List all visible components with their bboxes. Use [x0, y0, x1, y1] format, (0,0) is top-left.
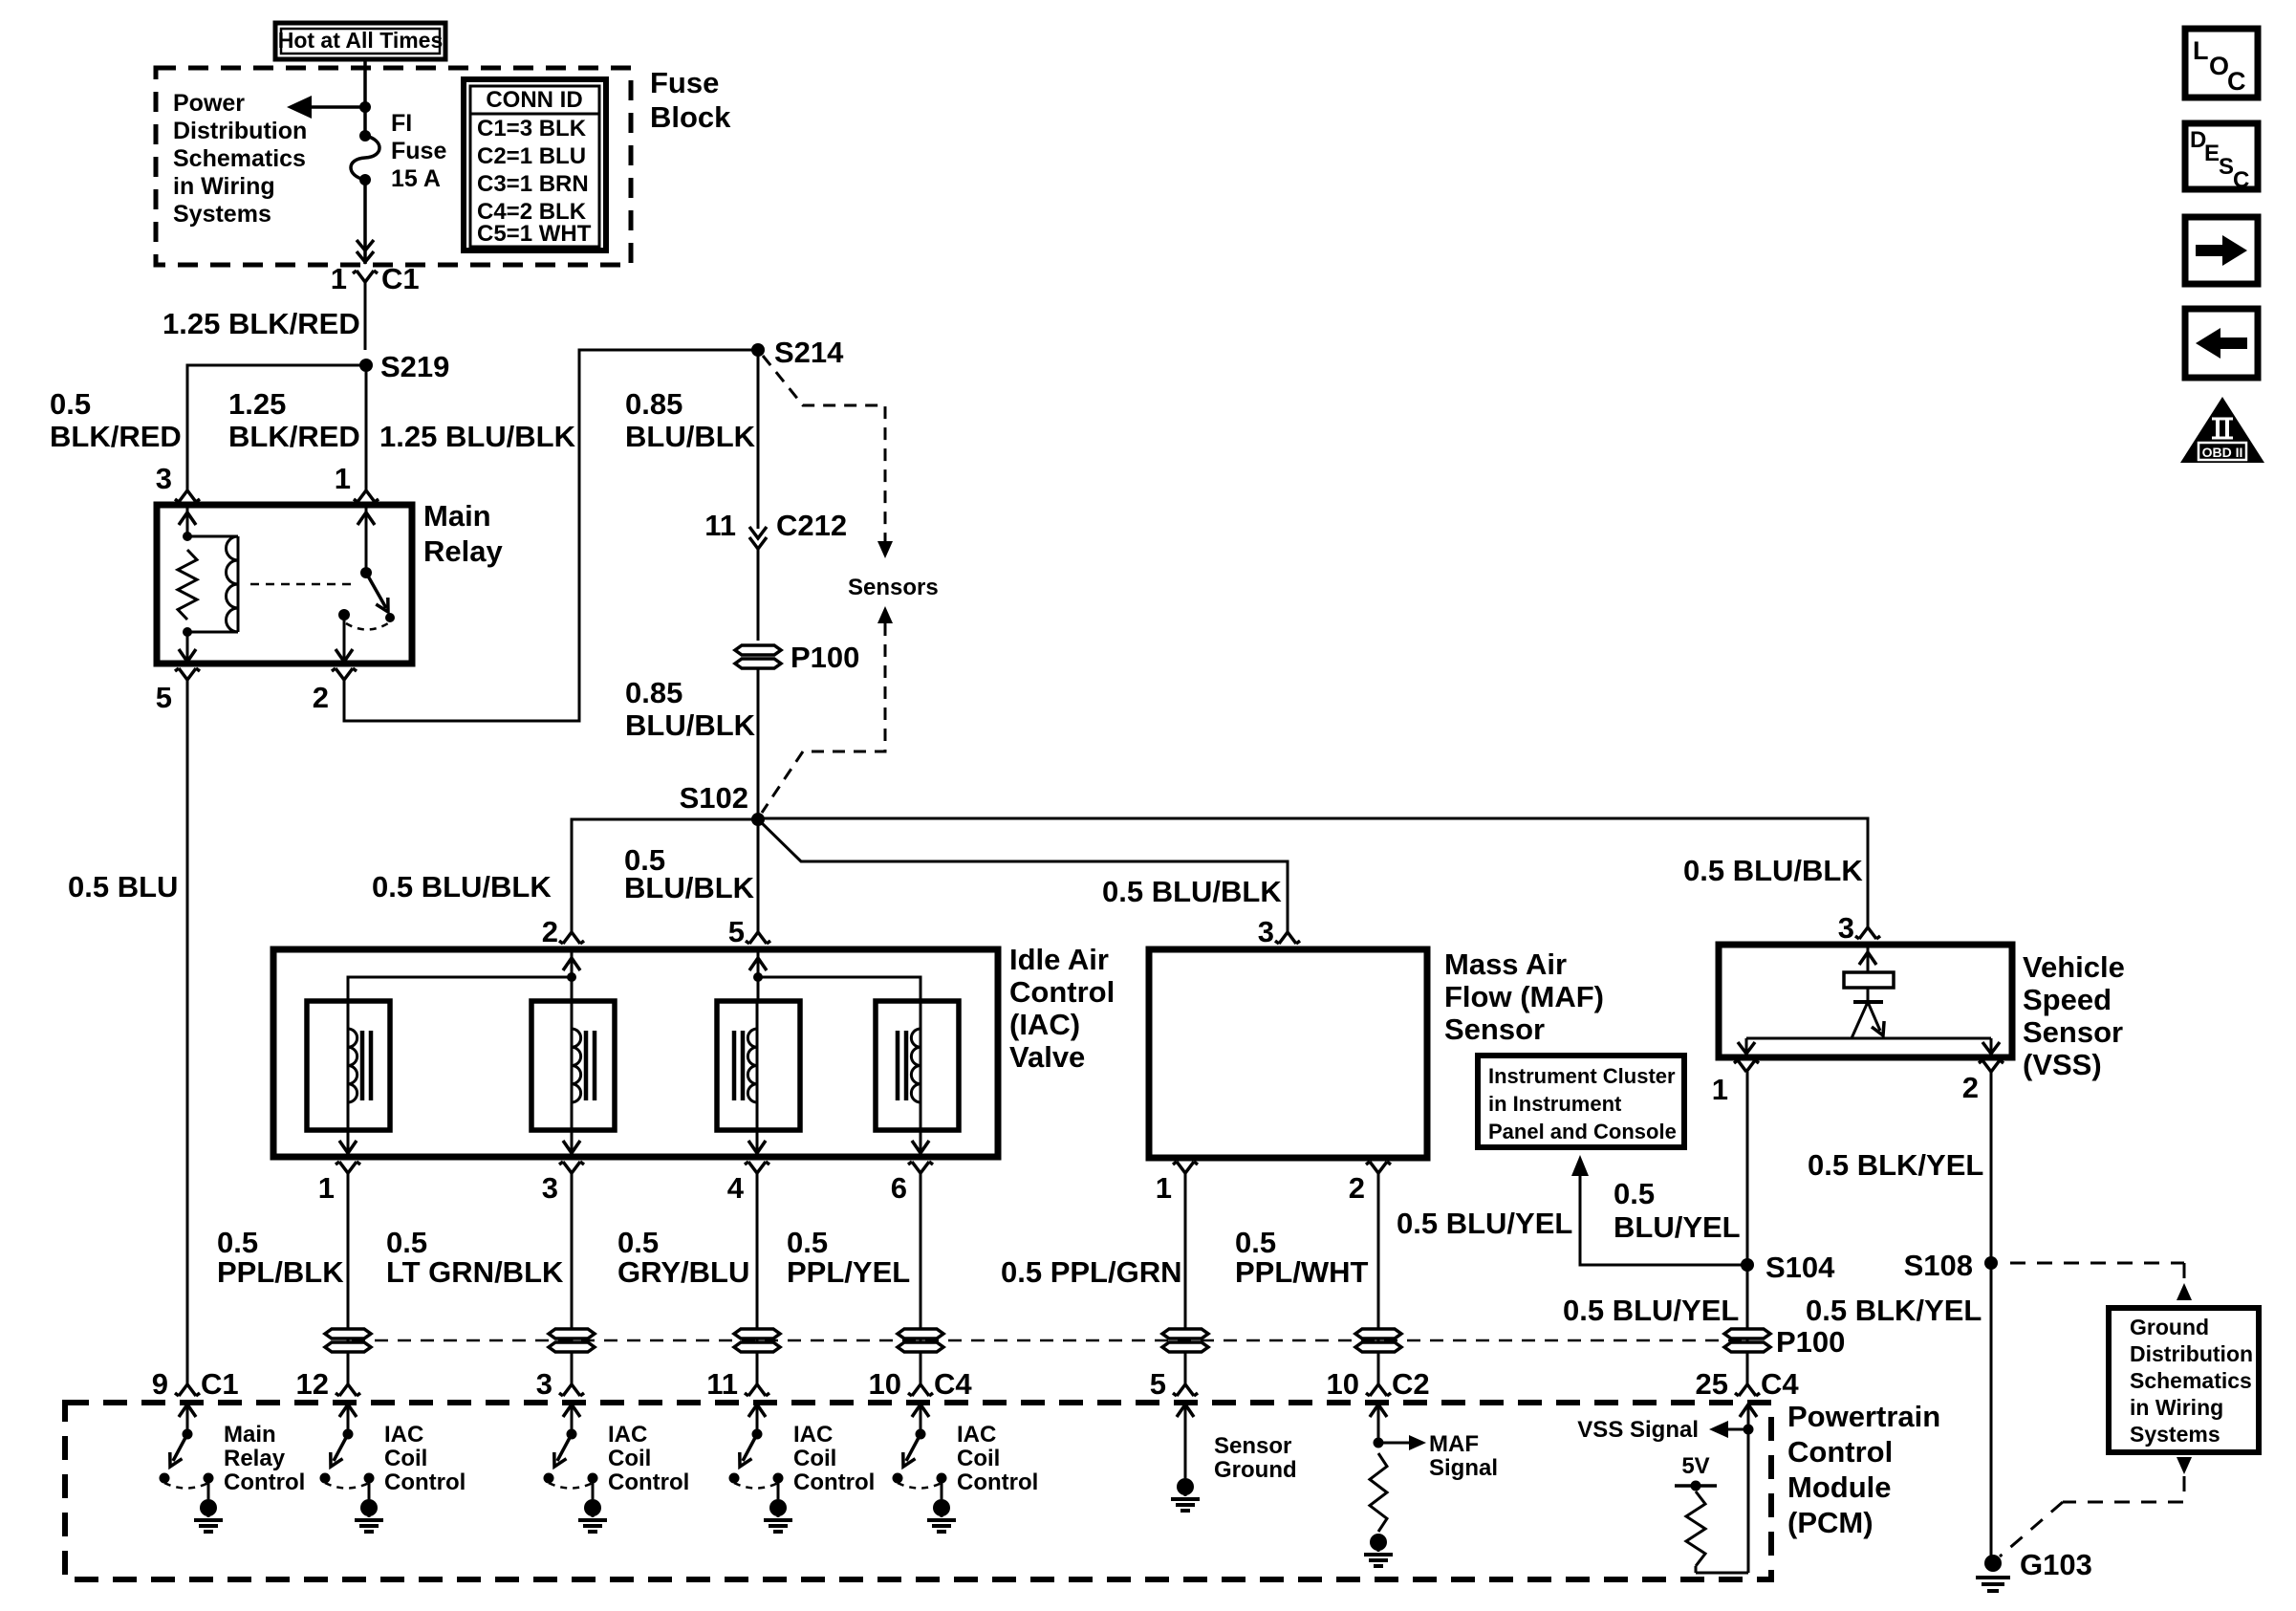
label 0.5 PPL/GRN [1001, 1255, 1182, 1289]
svg-text:Relay: Relay [423, 534, 503, 568]
label Sensors [848, 575, 939, 600]
svg-text:Control: Control [384, 1469, 466, 1495]
svg-text:Hot at All Times: Hot at All Times [278, 28, 444, 53]
svg-text:0.85: 0.85 [625, 676, 682, 709]
label 1 C1 [331, 262, 420, 295]
svg-text:Power: Power [173, 90, 245, 117]
wire IAC pin 6 to PCM [920, 1173, 922, 1384]
svg-text:Main: Main [224, 1422, 276, 1448]
wire IAC pin 4 to PCM [756, 1173, 759, 1384]
svg-text:S214: S214 [774, 336, 844, 369]
svg-text:0.5 BLU/YEL: 0.5 BLU/YEL [1563, 1294, 1739, 1327]
label pin 3 [156, 462, 172, 495]
IAC coil B [572, 1001, 595, 1130]
label pin 1 (MAF) [1156, 1171, 1172, 1205]
connector P100 (engine harness) [735, 645, 781, 668]
IAC pin 5 connector [746, 932, 770, 944]
label 0.85 BLU/BLK (upper) [625, 387, 756, 453]
MAF pin 1 connector [1173, 1162, 1198, 1173]
fuse block exit arrow [357, 240, 374, 262]
note Power Distribution Schematics in Wiring Systems [173, 90, 307, 228]
svg-text:Control: Control [608, 1469, 689, 1495]
label 0.5 BLU/BLK (IAC pin 2) [372, 870, 552, 903]
svg-text:S104: S104 [1765, 1251, 1835, 1284]
label pin 1 (IAC) [318, 1171, 335, 1205]
svg-text:Instrument Cluster: Instrument Cluster [1488, 1064, 1676, 1088]
label 1.25 BLK/RED (2) [228, 387, 360, 453]
svg-text:G103: G103 [2020, 1548, 2092, 1581]
relay pin 2 connector [332, 668, 357, 680]
IAC pin 3 connector [559, 1162, 584, 1173]
legend box right-arrow [2185, 217, 2258, 284]
pin 1 connector C1 below fuse block [353, 271, 378, 350]
svg-text:Control: Control [1787, 1435, 1893, 1469]
wire IAC pin 3 to PCM [571, 1173, 574, 1384]
label P100 (2) [1776, 1325, 1845, 1359]
svg-text:3: 3 [1258, 915, 1274, 948]
svg-text:Sensor: Sensor [1214, 1433, 1291, 1459]
svg-text:BLK/RED: BLK/RED [228, 420, 360, 453]
svg-text:4: 4 [727, 1171, 745, 1205]
svg-text:0.85: 0.85 [625, 387, 682, 421]
svg-text:C: C [2233, 167, 2249, 193]
label Main Relay [423, 499, 503, 568]
connector P100 on IAC pin1 wire [325, 1329, 371, 1352]
svg-text:Signal: Signal [1429, 1455, 1498, 1481]
relay pin 1 connector [354, 490, 379, 502]
label 0.5 BLU/BLK (MAF) [1102, 875, 1282, 908]
splice S102 [751, 813, 765, 826]
label G103 [2020, 1548, 2092, 1581]
relay pin 3 internal lead [179, 505, 196, 536]
svg-text:L: L [2193, 36, 2209, 65]
relay mechanical link dashed [250, 583, 357, 586]
svg-text:Control: Control [1009, 975, 1115, 1009]
svg-text:Sensor: Sensor [2023, 1015, 2123, 1049]
label pin 1 (VSS) [1712, 1073, 1728, 1106]
svg-text:1: 1 [335, 462, 351, 495]
svg-text:OBD II: OBD II [2202, 445, 2243, 460]
svg-text:2: 2 [542, 915, 558, 948]
svg-text:5: 5 [1150, 1367, 1166, 1401]
IAC coil C [734, 1001, 757, 1130]
splice S104 [1741, 1258, 1754, 1272]
label Instrument Cluster in Instrument Panel and Console [1488, 1064, 1677, 1143]
IAC coil A box [307, 1001, 390, 1130]
svg-text:VSS Signal: VSS Signal [1577, 1417, 1699, 1443]
svg-text:in Wiring: in Wiring [173, 173, 275, 200]
svg-text:11: 11 [704, 509, 736, 542]
svg-text:in Wiring: in Wiring [2130, 1395, 2223, 1420]
svg-text:C2: C2 [1392, 1367, 1430, 1401]
svg-text:GRY/BLU: GRY/BLU [617, 1255, 749, 1289]
svg-text:15 A: 15 A [391, 165, 441, 192]
svg-text:25: 25 [1696, 1367, 1728, 1401]
PCM main relay control driver [160, 1404, 306, 1532]
IAC pin 6 connector [908, 1162, 933, 1173]
PCM IAC coil control driver [729, 1404, 876, 1532]
svg-text:1.25: 1.25 [228, 387, 286, 421]
svg-text:0.5 BLU: 0.5 BLU [68, 870, 178, 903]
label Mass Air Flow (MAF) Sensor [1444, 947, 1604, 1046]
label pin 2 [313, 681, 329, 714]
label S102 [680, 781, 748, 815]
label 0.5 BLU [68, 870, 178, 903]
relay switch arm [366, 573, 388, 612]
svg-text:0.5 BLU/BLK: 0.5 BLU/BLK [372, 870, 552, 903]
PCM pin 12 connector [296, 1367, 360, 1401]
svg-text:Vehicle: Vehicle [2023, 950, 2125, 984]
PCM VSS signal input [1577, 1404, 1757, 1573]
svg-text:10: 10 [869, 1367, 901, 1401]
VSS pin 3 connector [1855, 927, 1880, 939]
IAC pin 3 internal lead [563, 1130, 580, 1157]
label pin 3 (MAF) [1258, 915, 1274, 948]
svg-text:Sensors: Sensors [848, 575, 939, 600]
svg-text:0.5: 0.5 [1235, 1226, 1276, 1259]
dashed sensors reference path [762, 356, 893, 813]
label S104 [1765, 1251, 1835, 1284]
svg-text:0.5: 0.5 [617, 1226, 659, 1259]
svg-text:Fuse: Fuse [391, 138, 446, 164]
IAC pin 2 internal lead [563, 949, 580, 1001]
IAC feed to coil D [758, 977, 921, 1001]
label Ground Distribution Schematics in Wiring Systems [2130, 1315, 2253, 1447]
svg-text:IAC: IAC [957, 1422, 996, 1448]
svg-text:0.5: 0.5 [1614, 1177, 1655, 1210]
svg-text:Mass Air: Mass Air [1444, 947, 1567, 981]
label 0.5 PPL/BLK [217, 1226, 344, 1289]
svg-text:0.5: 0.5 [50, 387, 91, 421]
svg-text:BLK/RED: BLK/RED [50, 420, 182, 453]
IAC internal feed junctions [567, 972, 763, 982]
svg-text:LT GRN/BLK: LT GRN/BLK [386, 1255, 564, 1289]
svg-text:0.5 BLU/BLK: 0.5 BLU/BLK [1102, 875, 1282, 908]
label pin 3 (IAC) [542, 1171, 558, 1205]
svg-text:S: S [2219, 154, 2234, 180]
label pin 6 (IAC) [891, 1171, 907, 1205]
svg-text:IAC: IAC [384, 1422, 423, 1448]
svg-text:C2=1 BLU: C2=1 BLU [477, 143, 586, 169]
label 0.5 BLU/BLK (VSS) [1683, 854, 1863, 887]
label 0.5 BLK/YEL (upper) [1808, 1148, 1983, 1182]
svg-text:(PCM): (PCM) [1787, 1506, 1874, 1539]
svg-text:Main: Main [423, 499, 491, 533]
svg-text:C4: C4 [1761, 1367, 1799, 1401]
svg-text:3: 3 [536, 1367, 552, 1401]
svg-text:FI: FI [391, 110, 412, 137]
svg-text:Idle Air: Idle Air [1009, 943, 1109, 976]
ground G103 [1976, 1555, 2010, 1591]
relay switch travel arc [346, 623, 388, 630]
svg-text:PPL/BLK: PPL/BLK [217, 1255, 344, 1289]
connector P100 on IAC pin4 wire [734, 1329, 780, 1352]
svg-text:Speed: Speed [2023, 983, 2112, 1016]
svg-text:PPL/WHT: PPL/WHT [1235, 1255, 1369, 1289]
wire IAC pin 1 to PCM [347, 1173, 350, 1384]
svg-text:IAC: IAC [793, 1422, 833, 1448]
wire relay pin 2 to S214 [344, 350, 758, 721]
splice S214 [751, 343, 765, 357]
connector P100 on IAC pin6 wire [898, 1329, 943, 1352]
label 1.25 BLK/RED [162, 307, 360, 340]
svg-text:C1: C1 [381, 262, 420, 295]
svg-text:Ground: Ground [1214, 1457, 1297, 1483]
VSS pin 2 connector [1979, 1060, 2004, 1072]
connector C212 pin 11 arrow [749, 527, 767, 549]
PCM pin 10 C2 connector [1327, 1367, 1430, 1401]
svg-text:1.25 BLU/BLK: 1.25 BLU/BLK [379, 420, 576, 453]
svg-text:10: 10 [1327, 1367, 1359, 1401]
svg-text:0.5 BLK/YEL: 0.5 BLK/YEL [1808, 1148, 1983, 1182]
relay resistor [178, 550, 197, 620]
label S219 [380, 350, 449, 383]
main relay box [157, 505, 412, 664]
svg-text:Coil: Coil [957, 1446, 1000, 1471]
label pin 2 (IAC) [542, 915, 558, 948]
MAF pin 3 connector [1275, 932, 1300, 944]
svg-text:Sensor: Sensor [1444, 1012, 1545, 1046]
svg-text:Powertrain: Powertrain [1787, 1400, 1940, 1433]
IAC pin 6 internal lead [912, 1130, 929, 1157]
PCM MAF signal input [1364, 1404, 1498, 1566]
label S108 [1904, 1249, 1973, 1282]
wire MAF pin 1 to PCM [1184, 1173, 1187, 1384]
label 0.5 PPL/WHT [1235, 1226, 1369, 1289]
label S214 [774, 336, 844, 369]
label 0.5 BLK/RED [50, 387, 182, 453]
svg-text:0.5 PPL/GRN: 0.5 PPL/GRN [1001, 1255, 1182, 1289]
relay switch pivot [360, 567, 372, 578]
svg-text:Block: Block [650, 100, 731, 134]
IAC feed to coil A [348, 977, 572, 1001]
label pin 2 (MAF) [1349, 1171, 1365, 1205]
label 11 C212 [704, 509, 847, 542]
IAC valve box [273, 949, 998, 1157]
junction on fuse feed [359, 101, 371, 113]
wire S102 to VSS pin 3 [758, 818, 1868, 927]
svg-text:Systems: Systems [2130, 1422, 2220, 1447]
MAF pin 2 connector [1366, 1162, 1391, 1173]
connector P100 (VSS wire) [1724, 1329, 1770, 1352]
svg-text:Coil: Coil [608, 1446, 651, 1471]
connector P100 on IAC pin3 wire [549, 1329, 595, 1352]
svg-text:5V: 5V [1681, 1453, 1709, 1479]
PCM pin 5 connector [1150, 1367, 1198, 1401]
svg-text:E: E [2204, 141, 2220, 166]
svg-text:PPL/YEL: PPL/YEL [787, 1255, 910, 1289]
wire S102 to MAF pin 3 [758, 819, 1288, 932]
label 0.5 BLU/YEL (below S104) [1563, 1294, 1739, 1327]
svg-text:Control: Control [957, 1469, 1038, 1495]
svg-text:Ground: Ground [2130, 1315, 2209, 1339]
PCM dashed boundary [65, 1403, 1771, 1579]
PCM pin 10 C4 connector [869, 1367, 973, 1401]
label 0.5 BLU/BLK (IAC pin 5) [624, 843, 755, 904]
IAC coil A [348, 1001, 371, 1130]
PCM pin 25 C4 connector [1696, 1367, 1800, 1401]
svg-text:Schematics: Schematics [2130, 1368, 2252, 1393]
wire P100 to S102 [757, 667, 760, 819]
svg-text:Systems: Systems [173, 201, 271, 228]
svg-text:in Instrument: in Instrument [1488, 1092, 1622, 1116]
PCM pin 9 C1 connector [152, 1367, 239, 1401]
svg-text:3: 3 [1838, 911, 1854, 945]
IAC pin 1 internal lead [339, 1130, 357, 1157]
svg-text:0.5 BLU/YEL: 0.5 BLU/YEL [1397, 1207, 1572, 1240]
svg-text:Panel and Console: Panel and Console [1488, 1120, 1677, 1143]
label pin 5 (IAC) [728, 915, 745, 948]
instrument cluster box [1478, 1056, 1684, 1147]
svg-text:Relay: Relay [224, 1446, 286, 1471]
IAC coil D [898, 1001, 921, 1130]
label 0.5 BLU/YEL (cluster) [1614, 1177, 1741, 1244]
svg-text:Distribution: Distribution [173, 118, 307, 144]
PCM pin 11 connector [706, 1367, 769, 1401]
svg-text:(VSS): (VSS) [2023, 1048, 2102, 1081]
svg-text:Module: Module [1787, 1470, 1892, 1504]
PCM IAC coil control driver [893, 1404, 1039, 1532]
dashed reference to ground distribution [2000, 1263, 2192, 1557]
VSS pin 1 connector [1734, 1060, 1759, 1072]
svg-text:Distribution: Distribution [2130, 1341, 2253, 1366]
PCM IAC coil control driver [544, 1404, 690, 1532]
IAC pin 1 connector [336, 1162, 360, 1173]
label 0.5 BLK/YEL (below S108) [1806, 1294, 1982, 1327]
label Vehicle Speed Sensor (VSS) [2023, 950, 2125, 1081]
svg-text:BLU/BLK: BLU/BLK [625, 420, 756, 453]
svg-text:Control: Control [793, 1469, 875, 1495]
svg-text:O: O [2209, 52, 2229, 80]
svg-text:6: 6 [891, 1171, 907, 1205]
svg-text:0.5 BLU/BLK: 0.5 BLU/BLK [1683, 854, 1863, 887]
svg-text:0.5: 0.5 [787, 1226, 828, 1259]
relay coil branch junctions [183, 532, 192, 637]
IAC coil B box [531, 1001, 615, 1130]
splice S219 [359, 359, 373, 372]
svg-text:MAF: MAF [1429, 1431, 1479, 1457]
svg-text:12: 12 [296, 1367, 329, 1401]
IAC coil C box [717, 1001, 800, 1130]
svg-text:S102: S102 [680, 781, 748, 815]
svg-text:11: 11 [706, 1367, 738, 1401]
label box Hot at All Times [275, 23, 445, 59]
svg-text:2: 2 [1349, 1171, 1365, 1205]
svg-text:C1=3 BLK: C1=3 BLK [477, 116, 587, 142]
label Fuse Block [650, 66, 731, 134]
svg-text:Coil: Coil [793, 1446, 836, 1471]
label pin 2 (VSS) [1962, 1071, 1979, 1104]
IAC pin 5 internal lead [749, 949, 767, 1001]
label 0.85 BLU/BLK (lower) [625, 676, 756, 742]
svg-text:3: 3 [156, 462, 172, 495]
wire relay pin 5 to PCM pin 9 [186, 680, 189, 1384]
svg-text:3: 3 [542, 1171, 558, 1205]
svg-text:1: 1 [1156, 1171, 1172, 1205]
wire S102 to IAC pin 2 [572, 819, 758, 932]
label pin 1 [335, 462, 351, 495]
PCM sensor ground [1171, 1404, 1297, 1511]
svg-text:C4: C4 [934, 1367, 972, 1401]
label 0.5 BLU/YEL (MAF 2) [1397, 1207, 1572, 1240]
relay pin 3 connector [175, 490, 200, 502]
svg-text:Coil: Coil [384, 1446, 427, 1471]
svg-text:1: 1 [331, 262, 347, 295]
svg-text:Control: Control [224, 1469, 305, 1495]
splice S108 [1984, 1256, 1998, 1270]
label FI Fuse 15 A [391, 110, 446, 192]
svg-text:P100: P100 [791, 641, 859, 674]
wire C212 to P100 [757, 549, 760, 641]
svg-text:Fuse: Fuse [650, 66, 719, 99]
label Powertrain Control Module (PCM) [1787, 1400, 1940, 1539]
connector P100 on MAF pin1 wire [1162, 1329, 1208, 1352]
svg-text:1: 1 [318, 1171, 335, 1205]
svg-text:Valve: Valve [1009, 1040, 1085, 1074]
relay pin 2 lead [336, 620, 353, 664]
relay pin 5 lead [179, 632, 196, 664]
fuse FI 15 A [351, 130, 379, 185]
wire VSS pin 2 to G103 [1990, 1072, 1993, 1563]
relay pin 1 lead to switch [357, 505, 375, 573]
wire to instrument cluster [1571, 1155, 1747, 1265]
IAC coil D box [876, 1001, 959, 1130]
svg-text:Schematics: Schematics [173, 145, 306, 172]
connector P100 on MAF pin2 wire [1355, 1329, 1401, 1352]
legend box LOC [2185, 29, 2258, 98]
label pin 4 (IAC) [727, 1171, 745, 1205]
svg-text:1.25 BLK/RED: 1.25 BLK/RED [162, 307, 360, 340]
label 0.5 GRY/BLU [617, 1226, 749, 1289]
svg-text:0.5: 0.5 [386, 1226, 427, 1259]
wire S214 down to C212 [757, 350, 760, 529]
arrow to power distribution [287, 96, 365, 119]
wire S219 to relay pin 1 [365, 365, 368, 490]
svg-text:C: C [2227, 67, 2246, 96]
svg-text:BLU/YEL: BLU/YEL [1614, 1210, 1741, 1244]
label 0.5 LT GRN/BLK [386, 1226, 564, 1289]
VSS box [1719, 945, 2012, 1057]
svg-text:0.5: 0.5 [217, 1226, 258, 1259]
svg-text:CONN ID: CONN ID [486, 87, 582, 113]
svg-text:BLU/BLK: BLU/BLK [624, 871, 755, 904]
svg-text:P100: P100 [1776, 1325, 1845, 1359]
PCM 5V pull-up [1675, 1453, 1748, 1573]
VSS internal sensor element [1738, 945, 2000, 1054]
svg-text:9: 9 [152, 1367, 168, 1401]
label Idle Air Control (IAC) Valve [1009, 943, 1115, 1074]
wire S102 to IAC pin 5 [757, 819, 760, 932]
svg-text:(IAC): (IAC) [1009, 1008, 1080, 1041]
IAC pin 4 internal lead [748, 1130, 766, 1157]
wire VSS pin 1 to PCM pin 25 [1746, 1072, 1749, 1384]
wire from Hot at All Times into fuse block [363, 59, 367, 131]
svg-text:2: 2 [1962, 1071, 1979, 1104]
label P100 [791, 641, 859, 674]
label 1.25 BLU/BLK [379, 420, 576, 453]
ground distribution box [2109, 1308, 2259, 1452]
svg-text:5: 5 [728, 915, 745, 948]
svg-text:BLU/BLK: BLU/BLK [625, 708, 756, 742]
PCM IAC coil control driver [320, 1404, 466, 1532]
legend box left-arrow [2185, 309, 2258, 378]
svg-text:C3=1 BRN: C3=1 BRN [477, 171, 589, 197]
MAF sensor box [1149, 949, 1427, 1158]
wire fuse to fuse block exit [363, 180, 367, 264]
P100 bulkhead dashed line [352, 1339, 1742, 1342]
CONN ID table [464, 79, 606, 250]
relay switch contact [338, 609, 395, 622]
